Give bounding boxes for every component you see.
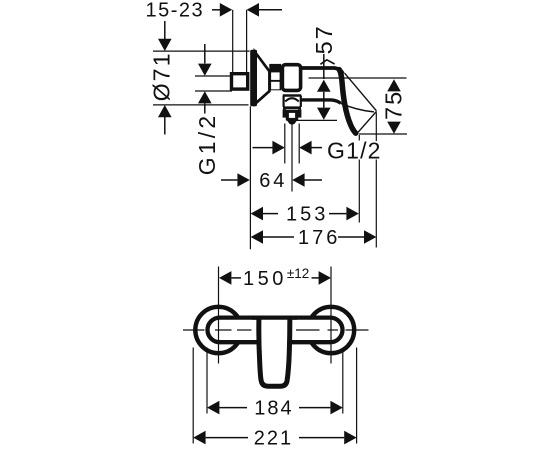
outlet centerline [291, 125, 293, 192]
hose nipple [286, 110, 298, 121]
dim 150 left line [231, 277, 241, 279]
dim O71 lower line [164, 117, 166, 135]
dim 64 right arrow [292, 173, 304, 187]
svg-text:221: 221 [254, 427, 293, 449]
hose nipple hole [289, 113, 295, 118]
extension line bottom of escutcheon [153, 104, 249, 106]
dim 57 up arrow [317, 80, 331, 92]
svg-text:57: 57 [311, 24, 337, 54]
dim 57 upper line [323, 54, 325, 79]
svg-text:184: 184 [254, 397, 293, 419]
handle roof [320, 60, 334, 65]
axis centerline [309, 77, 407, 79]
dim 176 right arrow [364, 230, 376, 244]
dim 15-23 left arrow [220, 3, 232, 17]
extension line 176 right [375, 160, 377, 248]
extension line 221 left [192, 348, 194, 444]
extension line union top [195, 75, 232, 77]
escutcheon face plate [250, 50, 257, 107]
svg-text:75: 75 [381, 90, 407, 120]
dim O71 up arrow [158, 105, 172, 117]
capsule top line over tongue [252, 315, 297, 319]
handle bottom edge [341, 103, 374, 112]
dim 64 right tail [305, 179, 323, 181]
handle top thick line [302, 68, 343, 74]
outlet joint line [283, 94, 301, 96]
dim G12 left upper line [204, 44, 206, 63]
outlet dome arc [285, 98, 299, 101]
outlet dome right wall [300, 96, 302, 107]
dim G12 nipple right tail [312, 147, 323, 149]
dim 184 left arrow [207, 401, 219, 415]
valve body [282, 65, 300, 91]
dim 57 down arrow [317, 108, 331, 120]
svg-text:G1/2: G1/2 [194, 113, 220, 176]
dim 176 left line [263, 236, 294, 238]
outlet nut right wall [298, 109, 301, 117]
union nut [269, 64, 281, 90]
dim 64 left arrow [237, 173, 249, 187]
extension line 221 right [356, 348, 358, 444]
handle tip extension line [359, 133, 407, 135]
dim 176 right line [338, 236, 364, 238]
handle front edge [345, 73, 377, 111]
dim 150 left arrow [219, 271, 231, 285]
horizontal centerline far left [183, 329, 205, 331]
extension line top of escutcheon [153, 50, 250, 52]
dim G12 nipple left tail [253, 147, 273, 149]
nipple left extension line [284, 124, 286, 164]
svg-text:G1/2: G1/2 [327, 137, 382, 163]
dim 150 right arrow [319, 271, 331, 285]
outlet bottom extension line [294, 119, 337, 121]
dim 153 right arrow [346, 207, 358, 221]
dim 221 left arrow [193, 431, 205, 445]
extension line 176 right upper [375, 113, 377, 142]
union face extension line [246, 10, 248, 73]
extension line 184 right [342, 348, 344, 414]
horizontal centerline right inner [296, 329, 320, 331]
dim 75 down arrow [387, 122, 401, 134]
right union centerline vertical [330, 267, 332, 364]
horizontal centerline far right [346, 329, 369, 331]
dim G12 nipple left arrow [272, 141, 284, 155]
wall union square [232, 74, 248, 89]
extension line union bottom [195, 90, 232, 92]
dim 64 left tail [221, 179, 237, 181]
extension line 153 right upper [358, 135, 360, 141]
svg-text:64: 64 [259, 170, 287, 192]
mixer body capsule [208, 318, 343, 343]
left union centerline vertical [218, 267, 220, 364]
union nut window lower [271, 82, 280, 90]
handle lower thick line [302, 100, 341, 104]
dim 176 left arrow [251, 230, 263, 244]
horizontal centerline left inner dash 2 [237, 329, 252, 331]
extension line 184 left [206, 348, 208, 414]
wall extension line [232, 10, 234, 73]
dim 15-23 left tail [212, 9, 220, 11]
dim 221 right line [299, 437, 344, 439]
dim 221 right arrow [344, 431, 356, 445]
nipple right extension line [298, 124, 300, 164]
outlet dome left wall [283, 96, 285, 107]
escutcheon cone [255, 52, 269, 104]
dim 184 right line [299, 407, 330, 409]
svg-text:Ø71: Ø71 [149, 51, 175, 101]
svg-text:153: 153 [286, 203, 328, 225]
left escutcheon circle [195, 307, 241, 353]
handle lever thick stroke [339, 70, 356, 134]
dim 184 left line [219, 407, 247, 409]
handle tongue front view [259, 320, 290, 387]
dim 15-23 right tail [259, 9, 282, 11]
dim 57 middle line [323, 92, 325, 108]
dim 75 up arrow [387, 79, 401, 91]
union nut window upper [271, 72, 280, 80]
dim G12 left down arrow [198, 64, 212, 76]
dim 153 left arrow [251, 207, 263, 221]
nipple tip [287, 121, 297, 126]
dim 15-23 right arrow [247, 3, 259, 17]
extension line 153 right [358, 160, 360, 223]
dim 221 left line [206, 437, 248, 439]
outlet shoulder band [283, 106, 301, 109]
dim 153 left line [263, 213, 278, 215]
dim G12 left up arrow [198, 91, 212, 103]
dim G12 left lower line [204, 103, 206, 113]
dim O71 down arrow [158, 39, 172, 51]
handle front lower edge [358, 111, 377, 132]
svg-text:176: 176 [298, 227, 340, 249]
horizontal centerline left inner dash [215, 329, 232, 331]
right escutcheon circle [308, 307, 354, 353]
dim O71 upper line [164, 21, 166, 40]
dim 150 right line [312, 277, 320, 279]
outlet nut left wall [283, 109, 286, 117]
horizontal centerline right dash [328, 329, 339, 331]
dim 153 right line [329, 213, 346, 215]
dim 184 right arrow [330, 401, 342, 415]
dim G12 nipple right arrow [299, 141, 311, 155]
svg-text:15-23: 15-23 [146, 0, 205, 22]
face reference line [249, 106, 251, 249]
